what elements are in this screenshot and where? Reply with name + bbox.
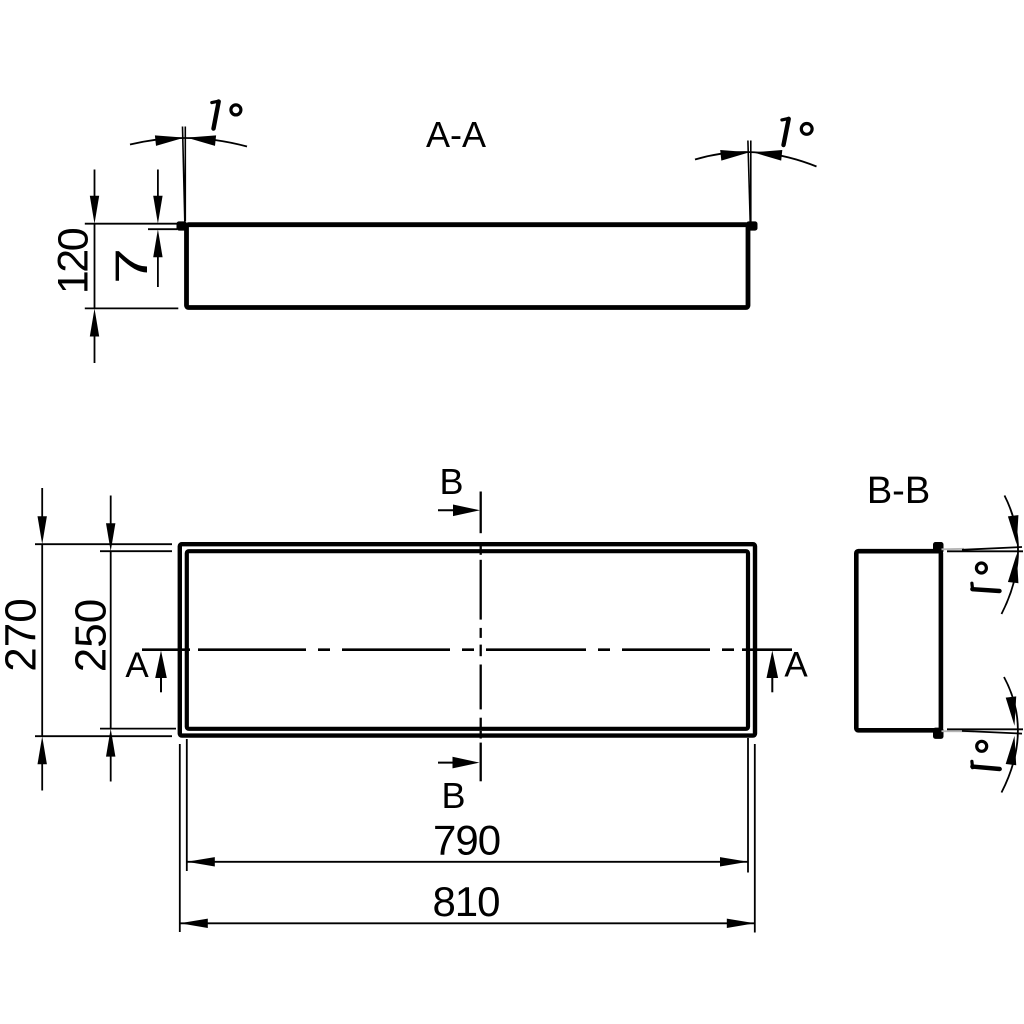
dimension 270 bottom extension line	[35, 735, 172, 737]
dimension 250 top arrow	[110, 496, 112, 524]
B-B box outline	[856, 551, 941, 730]
dimension 270 top arrow	[41, 488, 43, 517]
left 1-degree label	[212, 101, 241, 128]
left 1-degree taper vertical line	[184, 127, 186, 222]
dimension 790 left extension line	[186, 739, 188, 871]
svg-text:A-A: A-A	[426, 114, 486, 155]
dimension 810 right arrow	[727, 919, 755, 928]
dimension 250 bottom arrow	[110, 756, 112, 781]
right 1-degree arrow left	[720, 147, 750, 161]
svg-text:810: 810	[432, 878, 499, 925]
svg-text:A: A	[125, 646, 149, 685]
section A left arrow	[160, 678, 162, 692]
dimension 810 line	[180, 922, 755, 924]
svg-text:7: 7	[106, 248, 157, 284]
plan inner rectangle	[187, 551, 748, 729]
centerline	[142, 648, 792, 651]
svg-text:B: B	[441, 775, 465, 816]
B-B bottom reference line gray stub	[942, 730, 975, 732]
dimension 790 line	[187, 861, 748, 863]
left 1-degree tapered wall line	[183, 127, 185, 222]
right 1-degree arc	[695, 152, 817, 167]
right 1-degree tapered wall line	[748, 141, 750, 222]
A-A tray outline	[187, 225, 749, 308]
svg-text:A: A	[784, 645, 808, 684]
svg-text:270: 270	[0, 598, 46, 671]
dimension 250 top extension line	[100, 550, 172, 552]
B-B bottom arrow upper	[1006, 696, 1020, 726]
right 1-degree arrow right	[752, 147, 782, 161]
dimension 790 left arrow	[187, 857, 215, 866]
left 1-degree arrow left	[155, 132, 185, 146]
B-B bottom tapered line	[962, 731, 1022, 734]
dimension 810 left extension line	[179, 744, 181, 932]
B-B bottom flange lip	[933, 728, 944, 739]
dimension 790 right extension line	[747, 738, 749, 873]
dimension 250 line	[110, 551, 112, 728]
B-B top arrow lower	[1008, 553, 1022, 583]
A-A top face extension line	[85, 223, 182, 225]
section B top arrow	[438, 509, 455, 511]
dimension 120 bottom arrow	[94, 336, 96, 363]
left 1-degree arc	[130, 138, 247, 147]
B-B top reference line	[947, 550, 1023, 552]
section line B-B vertical	[480, 492, 482, 782]
section A right arrow	[771, 678, 773, 692]
svg-text:B-B: B-B	[867, 470, 930, 512]
dimension 7 top arrow	[157, 170, 159, 198]
svg-text:250: 250	[67, 599, 116, 672]
dimension 270 top extension line	[35, 543, 172, 545]
dimension 7 bottom arrow	[157, 257, 159, 288]
dimension 810 right extension line	[754, 744, 756, 933]
right 1-degree label	[782, 119, 812, 146]
dimension 120 bottom extension line	[85, 307, 179, 309]
svg-text:790: 790	[433, 817, 500, 864]
A-A right flange lip	[746, 221, 757, 230]
dimension 270 line	[41, 544, 43, 736]
dimension 790 right arrow	[720, 857, 748, 866]
svg-text:B: B	[439, 461, 463, 502]
section B bottom arrow	[438, 762, 455, 764]
svg-text:120: 120	[50, 228, 98, 294]
B-B top 1-degree label	[972, 563, 1000, 591]
left 1-degree arrow right	[186, 132, 216, 146]
dimension 120 line	[94, 224, 96, 309]
A-A flange underside tick	[148, 228, 177, 230]
right 1-degree taper vertical line	[750, 141, 752, 222]
dimension 120 top arrow	[94, 170, 96, 198]
B-B bottom 1-degree label	[972, 741, 1000, 769]
B-B top arc	[1002, 496, 1019, 615]
dimension 270 bottom arrow	[41, 764, 43, 791]
dimension 250 bottom extension line	[100, 728, 176, 730]
B-B top arrow upper	[1008, 515, 1022, 545]
B-B bottom reference line	[947, 728, 1023, 730]
B-B top reference line gray stub	[942, 548, 965, 551]
B-B top flange lip	[933, 542, 944, 553]
A-A left flange lip	[177, 221, 187, 230]
dimension 810 left arrow	[180, 919, 208, 928]
B-B bottom arc	[1002, 677, 1018, 793]
B-B top tapered line	[962, 547, 1022, 550]
B-B bottom arrow lower	[1006, 735, 1020, 765]
plan outer rectangle	[180, 544, 755, 735]
